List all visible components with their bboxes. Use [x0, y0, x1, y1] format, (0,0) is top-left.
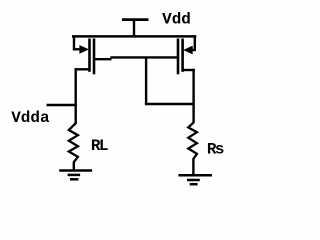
Vdd supply symbol — [122, 20, 149, 37]
resistor Rs — [188, 122, 197, 159]
svg-text:RL: RL — [91, 137, 108, 155]
wire: Rs to ground — [192, 159, 194, 175]
transistor M2 (right PMOS, diode-connected) — [178, 36, 196, 122]
wire: RL to ground — [73, 162, 75, 171]
wire: gate bus connecting both gates — [110, 56, 178, 58]
node Vdda wire — [47, 104, 77, 106]
resistor RL — [69, 124, 78, 163]
ground (left) — [59, 171, 92, 180]
svg-text:Rs: Rs — [207, 141, 224, 159]
transistor M1 (left PMOS) — [73, 36, 94, 124]
wire: gate stub of M1 — [95, 58, 112, 60]
wire: gate-to-drain diode connection (vertical drop) — [145, 57, 147, 104]
wire: Vdd top rail — [72, 35, 196, 38]
ground (right) — [178, 175, 212, 184]
svg-text:Vdda: Vdda — [11, 109, 50, 127]
wire: gate-to-drain diode connection (horizontal) — [145, 103, 195, 105]
svg-text:Vdd: Vdd — [162, 11, 191, 29]
